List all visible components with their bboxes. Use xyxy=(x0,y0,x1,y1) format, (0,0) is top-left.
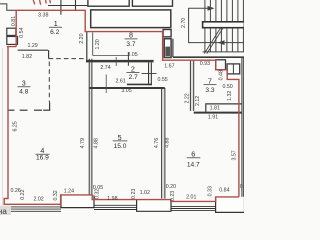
svg-text:0.20: 0.20 xyxy=(166,184,176,190)
svg-text:4.88: 4.88 xyxy=(93,138,99,148)
stairwell bottom wall xyxy=(173,56,244,58)
room 5 top wall xyxy=(89,87,165,89)
doorway dashed horizontal xyxy=(49,58,87,60)
svg-text:16.9: 16.9 xyxy=(36,155,49,162)
room 2 left wall xyxy=(127,53,129,66)
stair break line xyxy=(204,28,220,54)
stair walk arrowhead left xyxy=(218,40,225,45)
balcony divider stub 2 xyxy=(75,0,77,10)
red handwriting top xyxy=(33,0,50,5)
svg-text:2.74: 2.74 xyxy=(100,65,110,71)
balcony box 1 xyxy=(61,195,94,207)
stair lobby outline xyxy=(189,8,244,43)
svg-text:6.2: 6.2 xyxy=(50,29,59,36)
wall fill right outer xyxy=(242,57,244,197)
svg-text:3: 3 xyxy=(22,79,26,88)
svg-text:2.70: 2.70 xyxy=(181,18,187,28)
room 3 dashed right wall xyxy=(48,62,50,103)
vent box room7 a xyxy=(216,60,226,70)
room 2 door line xyxy=(142,73,157,75)
bottom outer wall left segment xyxy=(5,207,61,211)
balcony divider stub 1 xyxy=(60,0,62,15)
room 8 left wall xyxy=(86,32,88,63)
svg-text:0.23: 0.23 xyxy=(170,191,176,201)
svg-text:1.82: 1.82 xyxy=(22,54,32,60)
room 8 niche shelf xyxy=(93,55,129,57)
svg-text:0.81: 0.81 xyxy=(11,16,17,26)
corridor bottom wall xyxy=(86,60,154,63)
vent box room7 b xyxy=(227,64,240,74)
faint left scan edge xyxy=(2,48,4,205)
corner neighbour top-left xyxy=(0,4,16,10)
vent box stair 1 xyxy=(163,30,171,37)
room 8 niche line xyxy=(92,32,94,55)
room 3/4 divider segments xyxy=(8,109,15,111)
svg-text:4: 4 xyxy=(40,146,44,155)
svg-text:2: 2 xyxy=(131,64,135,73)
right outer wall lines xyxy=(241,57,243,197)
svg-text:7: 7 xyxy=(208,76,212,85)
bottom outer wall right segment xyxy=(171,206,216,210)
svg-text:0.22: 0.22 xyxy=(20,189,26,199)
svg-text:1.98: 1.98 xyxy=(107,196,117,202)
svg-text:1.20: 1.20 xyxy=(95,39,101,49)
room 2 right wall lines xyxy=(148,62,150,85)
door tick room5 top xyxy=(105,75,107,94)
svg-text:6.25: 6.25 xyxy=(12,121,18,131)
room6 niche outline xyxy=(206,104,242,112)
svg-text:3.05: 3.05 xyxy=(127,52,137,58)
svg-text:3.38: 3.38 xyxy=(38,12,48,18)
svg-text:1.91: 1.91 xyxy=(208,115,218,121)
svg-text:0.50: 0.50 xyxy=(222,84,232,90)
vent box stair 2 tall xyxy=(164,39,171,58)
room 3 top wall xyxy=(18,49,49,51)
svg-text:3.05: 3.05 xyxy=(121,88,131,94)
room5/6 wall lines xyxy=(161,88,163,199)
dimension texts horizontal xyxy=(10,12,247,202)
svg-text:3.3: 3.3 xyxy=(205,87,214,94)
wall fill room4/5 xyxy=(89,59,92,195)
svg-text:0.84: 0.84 xyxy=(219,187,229,193)
svg-text:8: 8 xyxy=(129,31,133,40)
svg-text:1.02: 1.02 xyxy=(140,190,150,196)
wall fill room5/6 xyxy=(162,88,165,199)
svg-text:1.67: 1.67 xyxy=(164,63,174,69)
stair lower floor line xyxy=(203,51,244,53)
svg-text:2.61: 2.61 xyxy=(115,79,125,85)
wall fill room7 left xyxy=(190,60,193,111)
svg-text:6: 6 xyxy=(191,150,195,159)
red apartment boundary xyxy=(4,10,239,204)
svg-text:0.55: 0.55 xyxy=(157,77,167,83)
stair niche wall xyxy=(172,39,174,58)
stair treads upper xyxy=(205,0,244,22)
svg-text:0.32: 0.32 xyxy=(95,189,101,199)
svg-text:0.54: 0.54 xyxy=(19,27,25,37)
stair up arrow line xyxy=(189,7,211,9)
svg-text:0.23: 0.23 xyxy=(131,189,137,199)
svg-text:0.48: 0.48 xyxy=(218,70,224,80)
svg-text:0.93: 0.93 xyxy=(200,61,210,67)
svg-text:2.12: 2.12 xyxy=(195,96,201,106)
svg-text:4.88: 4.88 xyxy=(165,137,171,147)
vent box B left xyxy=(7,37,18,45)
svg-text:2.20: 2.20 xyxy=(79,33,85,43)
svg-text:1.81: 1.81 xyxy=(210,105,220,111)
svg-text:3.57: 3.57 xyxy=(232,150,238,160)
svg-text:2.7: 2.7 xyxy=(129,74,138,81)
svg-text:1: 1 xyxy=(54,19,58,28)
svg-text:2.22: 2.22 xyxy=(185,93,191,103)
svg-text:0.5: 0.5 xyxy=(240,184,244,190)
vent box A left xyxy=(7,28,16,35)
svg-text:3.7: 3.7 xyxy=(126,41,135,48)
svg-text:4.8: 4.8 xyxy=(19,89,28,96)
svg-text:1.29: 1.29 xyxy=(27,43,37,49)
balcony box 3 xyxy=(216,197,245,213)
svg-text:4.79: 4.79 xyxy=(80,138,86,148)
svg-text:на: на xyxy=(0,207,7,215)
room 3 right wall top xyxy=(48,50,50,58)
svg-text:1.32: 1.32 xyxy=(227,91,233,101)
svg-text:0.32: 0.32 xyxy=(53,190,59,200)
svg-text:1.24: 1.24 xyxy=(64,188,74,194)
svg-text:4.76: 4.76 xyxy=(154,138,160,148)
room4/5 wall lines xyxy=(88,59,90,195)
top strip rect 1 xyxy=(88,0,129,6)
svg-text:15.0: 15.0 xyxy=(114,143,127,150)
top strip rect 2 xyxy=(132,0,172,6)
svg-text:14.7: 14.7 xyxy=(187,162,200,169)
bottom outer wall middle segment xyxy=(94,205,137,209)
wall fill room2 right xyxy=(149,62,152,85)
room 3 right wall bottom xyxy=(49,102,51,110)
svg-text:0.33: 0.33 xyxy=(208,186,214,196)
dimension tick corridor xyxy=(115,57,117,66)
svg-text:2.02: 2.02 xyxy=(33,197,43,203)
loggia rectangle xyxy=(91,10,171,28)
watermark bottom-left xyxy=(0,206,11,216)
balcony box 2 xyxy=(137,200,171,212)
stair treads lower xyxy=(205,28,244,52)
balcony divider line above room1 xyxy=(48,5,88,7)
room7 left wall lines xyxy=(189,60,191,111)
room 2 bottom wall xyxy=(127,83,152,85)
room6 top wall xyxy=(194,112,242,114)
stair up arrowhead xyxy=(208,6,215,11)
stair landing xyxy=(203,22,245,28)
dimension texts vertical xyxy=(11,16,238,201)
svg-text:2.01: 2.01 xyxy=(186,195,196,201)
